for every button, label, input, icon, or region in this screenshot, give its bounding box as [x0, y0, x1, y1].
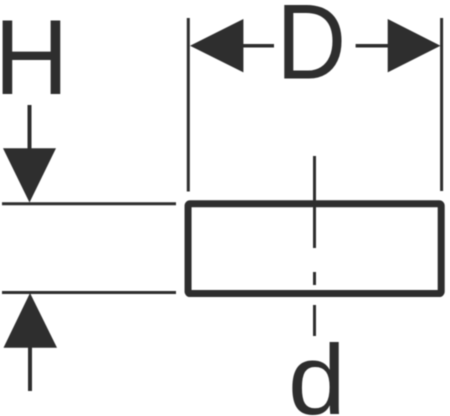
D extension line left: [187, 18, 190, 192]
svg-text:D: D: [276, 0, 346, 102]
centerline segment 1: [313, 156, 316, 248]
svg-text:H: H: [0, 0, 69, 117]
wire H arrow tail bottom: [28, 348, 32, 392]
H dimension line bottom: [2, 291, 176, 294]
D extension line right: [440, 18, 443, 191]
wire D arrow tail left: [243, 44, 274, 48]
centerline segment 2: [313, 272, 316, 285]
svg-text:d: d: [288, 324, 346, 416]
centerline segment 3: [313, 305, 316, 336]
H dimension arrow bottom (up): [4, 293, 58, 348]
H dimension line top: [2, 202, 176, 205]
part body rectangle: [188, 204, 441, 294]
wire D arrow tail right: [356, 44, 388, 48]
wire H arrow tail top: [28, 105, 32, 149]
H dimension arrow top (down): [3, 148, 56, 202]
D dimension arrow left: [190, 19, 243, 72]
D dimension arrow right: [388, 19, 441, 72]
